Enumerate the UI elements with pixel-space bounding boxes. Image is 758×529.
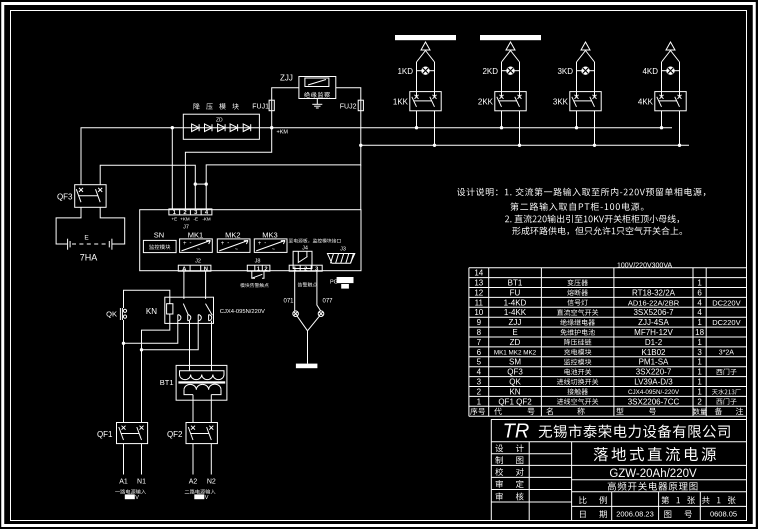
fuse FUJ2 bbox=[340, 100, 364, 111]
svg-text:MK1 MK2 MK2: MK1 MK2 MK2 bbox=[494, 350, 537, 357]
diode D4 bbox=[230, 124, 238, 132]
node +KM bbox=[277, 130, 289, 136]
wire J7-1 from +E bbox=[171, 128, 173, 209]
connector J4 bbox=[293, 245, 312, 268]
breaker 1KK bbox=[393, 92, 441, 111]
svg-text:ZJJ-4SA: ZJJ-4SA bbox=[638, 318, 669, 327]
svg-text:1: 1 bbox=[697, 358, 702, 367]
svg-text:9: 9 bbox=[477, 318, 482, 327]
label PG socket bbox=[330, 277, 354, 289]
wire J7-2 from +KM bbox=[185, 128, 271, 209]
wire J7-3 from QF3 bbox=[100, 165, 197, 209]
svg-text:J4: J4 bbox=[302, 245, 308, 251]
svg-text:BT1: BT1 bbox=[160, 378, 174, 387]
svg-text:071: 071 bbox=[283, 299, 294, 305]
svg-text:4: 4 bbox=[697, 298, 702, 307]
table row 2 KN bbox=[477, 387, 741, 396]
charger module MK2 bbox=[217, 231, 250, 253]
module cabinet box bbox=[140, 210, 361, 271]
svg-text:ZD: ZD bbox=[510, 338, 521, 347]
svg-text:QF2: QF2 bbox=[167, 430, 183, 439]
svg-text:1: 1 bbox=[697, 338, 702, 347]
indicator lamp 1KD bbox=[397, 67, 429, 77]
wire arrow unit 3 bbox=[577, 42, 595, 62]
wire QF2 to input 2 bbox=[193, 444, 211, 475]
title block left labels bbox=[495, 444, 523, 500]
svg-text:3SX5206-7: 3SX5206-7 bbox=[633, 308, 674, 317]
breaker QF1 bbox=[97, 423, 148, 444]
svg-text:4: 4 bbox=[697, 308, 702, 317]
svg-text:ZD: ZD bbox=[216, 118, 223, 124]
svg-text:14: 14 bbox=[474, 269, 483, 278]
svg-text:QK: QK bbox=[106, 310, 117, 319]
svg-text:V: V bbox=[205, 495, 209, 501]
svg-text:3: 3 bbox=[697, 348, 702, 357]
terminal lug 071 bbox=[293, 311, 299, 317]
title block frame bbox=[491, 420, 746, 521]
table row 9 ZJJ bbox=[477, 318, 741, 327]
svg-text:PM1-SA: PM1-SA bbox=[639, 358, 669, 367]
charger module MK3 bbox=[254, 231, 287, 253]
diode D2 bbox=[205, 124, 213, 132]
wire +KM main bus bbox=[81, 126, 672, 185]
svg-text:1: 1 bbox=[697, 378, 702, 387]
indicator lamp 3KD bbox=[557, 67, 589, 77]
wire ZJJ right to FUJ2 bbox=[336, 88, 361, 101]
svg-text:MF7H-12V: MF7H-12V bbox=[634, 328, 673, 337]
svg-text:E: E bbox=[512, 328, 517, 337]
svg-text:2KD: 2KD bbox=[482, 67, 498, 76]
node A2 N2 bbox=[185, 479, 216, 502]
svg-text:2KK: 2KK bbox=[478, 98, 494, 107]
svg-text:LV39A-D/3: LV39A-D/3 bbox=[634, 378, 673, 387]
table row 7 ZD bbox=[477, 338, 703, 347]
indicator lamp 4KD bbox=[642, 67, 674, 77]
svg-text:7: 7 bbox=[477, 338, 482, 347]
svg-text:4: 4 bbox=[477, 368, 482, 377]
table row 1 QF1 QF2 bbox=[477, 397, 737, 406]
wire -KM into cabinet right edge bbox=[360, 165, 362, 210]
svg-text:3: 3 bbox=[477, 378, 482, 387]
svg-text:077: 077 bbox=[323, 299, 334, 305]
table row 5 SM bbox=[477, 358, 703, 367]
svg-text:QF1 QF2: QF1 QF2 bbox=[498, 397, 532, 406]
wire QK to QF1 left bbox=[123, 320, 125, 423]
parts table grid bbox=[469, 268, 747, 417]
svg-text:2006.08.23: 2006.08.23 bbox=[616, 510, 654, 519]
wire 2KK to buses bbox=[500, 111, 521, 147]
wire ZJJ left to FUJ1 bbox=[272, 88, 299, 101]
transformer BT1 bbox=[160, 365, 227, 400]
svg-text:+KM: +KM bbox=[277, 130, 289, 136]
wire KN coil to QF1 right bbox=[142, 314, 170, 423]
svg-text:ZJJ: ZJJ bbox=[280, 74, 293, 83]
label product title bbox=[594, 447, 716, 461]
svg-text:A1: A1 bbox=[119, 479, 128, 486]
svg-text:KN: KN bbox=[509, 387, 520, 396]
svg-text:GZW-20Ah/220V: GZW-20Ah/220V bbox=[609, 468, 697, 480]
wire -KM bottom bus bbox=[359, 144, 689, 147]
note text at J4 bbox=[289, 238, 341, 243]
wire arrow to busbar unit 2 bbox=[502, 42, 520, 62]
svg-text:+: + bbox=[258, 241, 262, 247]
connector J3 bbox=[327, 246, 354, 263]
wire QF1 to input 1 bbox=[124, 444, 142, 475]
wire FUJ1 to +KM node bbox=[271, 111, 273, 128]
diode D5 bbox=[243, 124, 251, 132]
wire QF3 to battery bbox=[56, 207, 125, 244]
wire KN contact2 to BT1 bbox=[189, 321, 191, 371]
svg-text:FU: FU bbox=[510, 288, 521, 297]
svg-text:QF3: QF3 bbox=[507, 368, 523, 377]
svg-text:SN: SN bbox=[154, 231, 164, 240]
svg-text:1: 1 bbox=[697, 368, 702, 377]
wire 1KK to buses bbox=[415, 111, 436, 147]
wire J2-A to contactor bbox=[183, 271, 185, 299]
svg-text:J2: J2 bbox=[195, 258, 201, 264]
wire unit 3 leads bbox=[577, 62, 595, 97]
wire unit 2 leads bbox=[502, 62, 520, 97]
svg-text:18: 18 bbox=[695, 328, 704, 337]
svg-text:10kV: 10kV bbox=[403, 36, 416, 42]
terminal strip J5 (1 2 3) bbox=[289, 265, 322, 287]
svg-text:6: 6 bbox=[477, 348, 482, 357]
svg-text:MK3: MK3 bbox=[262, 231, 277, 240]
svg-text:12: 12 bbox=[474, 288, 483, 297]
svg-text:MK2: MK2 bbox=[225, 231, 240, 240]
fuse FUJ1 bbox=[252, 100, 274, 111]
svg-text:2: 2 bbox=[183, 210, 186, 216]
svg-text:-: - bbox=[227, 241, 229, 247]
svg-text:AD16-22A/2BR: AD16-22A/2BR bbox=[628, 298, 680, 307]
svg-text:100V/220V300VA: 100V/220V300VA bbox=[617, 263, 672, 270]
svg-text:+: + bbox=[221, 241, 225, 247]
svg-text:~: ~ bbox=[197, 247, 200, 253]
svg-text:~: ~ bbox=[235, 247, 238, 253]
svg-text:A2: A2 bbox=[189, 479, 198, 486]
svg-text:1: 1 bbox=[697, 387, 702, 396]
svg-text:E: E bbox=[84, 235, 89, 242]
design notes bbox=[457, 188, 705, 236]
label company name bbox=[539, 425, 730, 439]
svg-text:MK1: MK1 bbox=[188, 231, 203, 240]
svg-text:QF1: QF1 bbox=[97, 430, 113, 439]
relay ZJJ bbox=[280, 74, 336, 99]
svg-text:3SX2206-7CC: 3SX2206-7CC bbox=[628, 397, 680, 406]
earth bar bbox=[296, 364, 318, 369]
wire arrow unit 4 bbox=[662, 42, 680, 62]
diode D1 bbox=[192, 124, 200, 132]
wire 071 bbox=[283, 271, 294, 311]
node busbar 10kV (unit 2) bbox=[480, 35, 541, 42]
svg-text:+KM: +KM bbox=[180, 216, 190, 221]
wire J7-4 from -KM bbox=[205, 145, 361, 209]
svg-text:8: 8 bbox=[477, 328, 482, 337]
svg-text:DC220V: DC220V bbox=[712, 318, 740, 327]
monitor module SN bbox=[143, 231, 176, 253]
contact module alarm (under J8) bbox=[240, 271, 268, 287]
svg-text:CJX4-095N/-220V: CJX4-095N/-220V bbox=[628, 389, 680, 396]
svg-text:5: 5 bbox=[477, 358, 482, 367]
svg-text:1KK: 1KK bbox=[393, 98, 409, 107]
svg-text:3KK: 3KK bbox=[553, 98, 569, 107]
wire unit 1 leads bbox=[417, 62, 435, 97]
label transformer rating bbox=[617, 263, 672, 270]
svg-text:DC220V: DC220V bbox=[712, 298, 740, 307]
table row 8 E bbox=[477, 328, 705, 337]
svg-text:QF3: QF3 bbox=[57, 193, 73, 202]
svg-text:6: 6 bbox=[697, 288, 702, 297]
table row 3 QK bbox=[477, 378, 703, 387]
terminal strip J8 bbox=[247, 258, 270, 272]
logo TR bbox=[503, 421, 530, 443]
wire FUJ2 to -KM bus bbox=[360, 111, 362, 146]
wire 077 bbox=[317, 271, 333, 311]
wire QK branch bbox=[124, 290, 170, 308]
svg-text:N1: N1 bbox=[137, 479, 146, 486]
breaker QF2 bbox=[167, 423, 217, 444]
switch QK bbox=[106, 308, 126, 320]
wire to earth bar bbox=[297, 316, 319, 363]
svg-text:-KM: -KM bbox=[202, 216, 211, 221]
wire arrow to busbar unit 1 bbox=[417, 42, 435, 62]
svg-text:QK: QK bbox=[509, 378, 521, 387]
svg-text:4KD: 4KD bbox=[642, 67, 658, 76]
svg-text:1: 1 bbox=[697, 279, 702, 288]
svg-text:J3: J3 bbox=[340, 246, 346, 252]
svg-text:N2: N2 bbox=[207, 479, 216, 486]
contactor KN bbox=[146, 297, 265, 323]
svg-text:K1B02: K1B02 bbox=[641, 348, 666, 357]
svg-text:BT1: BT1 bbox=[508, 279, 523, 288]
table row 6 MK bbox=[477, 348, 735, 357]
breaker 4KK bbox=[638, 92, 686, 111]
breaker QF3 bbox=[57, 185, 106, 208]
svg-text:+: + bbox=[183, 241, 187, 247]
diode D3 bbox=[218, 124, 226, 132]
battery E 7HA bbox=[68, 235, 112, 263]
svg-text:2: 2 bbox=[477, 387, 482, 396]
breaker 2KK bbox=[478, 92, 526, 111]
svg-text:~: ~ bbox=[272, 247, 275, 253]
svg-text:7HA: 7HA bbox=[80, 253, 98, 263]
label scale row bbox=[579, 496, 735, 504]
svg-text:2: 2 bbox=[304, 267, 307, 273]
svg-text:0608.05: 0608.05 bbox=[710, 510, 737, 519]
svg-text:2: 2 bbox=[697, 397, 702, 406]
svg-text:11: 11 bbox=[475, 298, 484, 307]
table row 13 BT1 bbox=[474, 279, 702, 288]
terminal strip J2 bbox=[178, 258, 211, 272]
svg-text:3KD: 3KD bbox=[557, 67, 573, 76]
svg-text:3SX220-7: 3SX220-7 bbox=[636, 368, 672, 377]
table row 11 1-4KD bbox=[475, 298, 741, 307]
table row 14 bbox=[474, 269, 483, 278]
wire KN contact4 to BT1 bbox=[211, 321, 213, 371]
svg-text:1: 1 bbox=[697, 318, 702, 327]
svg-text:SM: SM bbox=[509, 358, 521, 367]
ground (ZJJ) bbox=[312, 99, 322, 109]
terminal lug 077 bbox=[318, 311, 324, 317]
svg-text:TR: TR bbox=[503, 421, 530, 443]
svg-text:J8: J8 bbox=[255, 258, 261, 264]
label model bbox=[609, 468, 697, 480]
wire 3KK to buses bbox=[575, 111, 596, 147]
svg-text:2: 2 bbox=[264, 267, 267, 273]
wire BT1 to QF2 bbox=[193, 395, 211, 423]
svg-text:13: 13 bbox=[474, 279, 483, 288]
svg-text:V: V bbox=[135, 495, 139, 501]
svg-text:ZJJ: ZJJ bbox=[509, 318, 522, 327]
svg-text:3*2A: 3*2A bbox=[719, 350, 735, 357]
svg-text:RT18-32/2A: RT18-32/2A bbox=[632, 288, 676, 297]
table row 4 QF3 bbox=[477, 368, 737, 377]
wire unit 4 leads bbox=[662, 62, 680, 97]
svg-text:1: 1 bbox=[477, 397, 482, 406]
table header row bbox=[470, 408, 743, 415]
node A1 N1 bbox=[115, 479, 146, 502]
label drawing name bbox=[608, 482, 698, 491]
svg-text:-E: -E bbox=[194, 216, 199, 221]
svg-text:FUJ1: FUJ1 bbox=[252, 104, 269, 111]
node busbar 10kV (unit 1) bbox=[395, 35, 456, 42]
svg-text:FUJ2: FUJ2 bbox=[340, 104, 357, 111]
svg-text:4KK: 4KK bbox=[638, 98, 654, 107]
svg-text:10kV: 10kV bbox=[488, 36, 501, 42]
wire 4KK to buses bbox=[660, 111, 681, 147]
svg-text:1KD: 1KD bbox=[397, 67, 413, 76]
table row 10 1-4KK bbox=[474, 308, 702, 317]
wire KN contact1 to QK line bbox=[122, 321, 178, 345]
svg-text:+E: +E bbox=[171, 216, 177, 221]
svg-text:-: - bbox=[264, 241, 266, 247]
wire KN contact3 to coil-side line bbox=[140, 321, 198, 352]
svg-text:1-4KK: 1-4KK bbox=[504, 308, 527, 317]
wire bridge J7-3/J7-4 bbox=[195, 183, 206, 185]
wire J2-N to contactor bbox=[205, 271, 207, 299]
diode module ZD (降压模块) bbox=[183, 103, 259, 139]
svg-text:-: - bbox=[190, 241, 192, 247]
svg-text:1-4KD: 1-4KD bbox=[504, 298, 527, 307]
charger module MK1 bbox=[180, 231, 213, 253]
terminal strip J7 bbox=[169, 209, 212, 231]
svg-text:D1-2: D1-2 bbox=[645, 338, 663, 347]
label date row bbox=[580, 510, 737, 519]
svg-text:CJX4-095N/220V: CJX4-095N/220V bbox=[220, 309, 265, 315]
breaker 3KK bbox=[553, 92, 601, 111]
svg-text:KN: KN bbox=[146, 307, 157, 316]
indicator lamp 2KD bbox=[482, 67, 514, 77]
table row 12 FU bbox=[474, 288, 702, 297]
svg-text:10: 10 bbox=[474, 308, 483, 317]
